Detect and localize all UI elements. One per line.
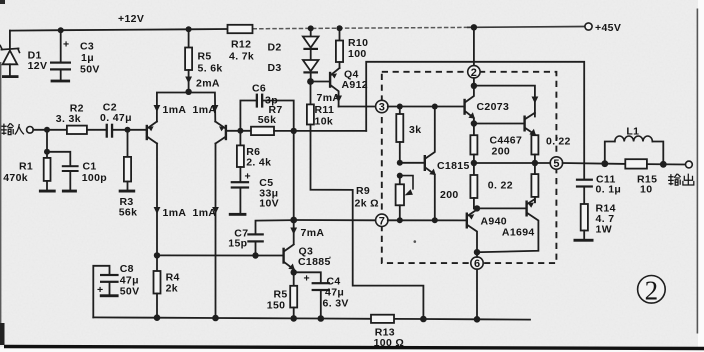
resistor R3 [119,130,138,219]
svg-text:+: + [304,273,310,285]
svg-text:15p: 15p [228,238,247,250]
svg-text:56k: 56k [258,114,277,126]
wire: +12V/+45V top rail [10,29,228,31]
wire: node3 inside module [388,106,464,108]
diode D2 [268,25,319,59]
pin 2 [468,24,480,79]
svg-text:1W: 1W [596,224,612,236]
svg-text:0. 47μ: 0. 47μ [100,112,132,124]
svg-text:1mA: 1mA [193,207,217,219]
ground [100,294,119,297]
wire: diff pair emitter tail [154,89,219,122]
node: L1 left junction [601,160,608,167]
resistor R11 [307,82,334,128]
label 7mA (Q3 collector) [290,227,324,239]
svg-text:1μ: 1μ [81,52,94,64]
ground [51,80,71,83]
ground [574,239,594,242]
svg-text:2mA: 2mA [196,78,220,90]
node: L1 right junction [660,161,667,168]
svg-text:+12V: +12V [118,13,144,25]
svg-text:4. 7k: 4. 7k [229,51,254,63]
capacitor C4 [294,272,349,318]
wire: to A1694 base [477,207,525,209]
svg-text:5. 6k: 5. 6k [198,63,223,75]
svg-text:+: + [63,39,69,51]
top-left corner mark [0,0,5,4]
svg-text:3k: 3k [409,124,421,136]
wire: node to Zobel loop corner [294,130,367,132]
resistor 3k [396,107,421,163]
svg-text:R1: R1 [19,161,33,173]
capacitor C11 [576,174,621,205]
svg-text:R9: R9 [356,185,370,197]
label R9 2k ohm [355,185,379,210]
wire: zobel loop (node feedback to C11) [366,62,584,179]
capacitor C7 [228,220,293,255]
wire: node down to node7 line [293,131,295,220]
wire: node5 to output [563,162,626,165]
wire: bottom feedback rail [93,317,371,318]
bottom black separator bar [4,345,704,350]
transistor A940 (PNP driver) [466,210,507,253]
transistor C4467 (NPN output) [490,113,536,158]
transistor Q1 (PNP left of diff pair) [146,122,157,144]
svg-text:+45V: +45V [595,22,621,34]
resistor R2 [56,103,87,135]
wire: pin2 to output collector [474,86,535,117]
wire: Q2 base to R7 [227,130,251,132]
transistor C1815 (Vbe multiplier) [424,107,470,221]
pin 5 [550,157,562,170]
resistor R4 [154,252,180,318]
transistor Q4 A912 (PNP current source) [311,68,369,107]
node: C7 bottom junction [252,252,258,258]
svg-text:10: 10 [640,184,652,196]
resistor R15 [625,159,685,195]
svg-text:1mA: 1mA [193,104,217,116]
node: Q3 emitter junction [291,269,297,275]
pin 3 [376,100,388,113]
wire: Q2 collector down [212,144,219,319]
wire: Q1 collector to Q3 base [157,254,283,256]
ground [2,75,19,78]
svg-text:470k: 470k [3,172,28,184]
svg-text:A1694: A1694 [502,227,535,239]
resistor R14 [574,203,616,242]
wire R2 to C2 [87,129,107,131]
label 输出 (output) [668,174,694,186]
capacitor C5 [229,171,279,216]
inductor L1 [605,126,664,165]
svg-text:2: 2 [645,275,659,305]
transistor A1694 (PNP output) [477,199,538,252]
node: node7 / Q3 collector junction [290,217,297,224]
svg-text:5: 5 [553,158,559,170]
wire: base tap to C1815 [400,162,424,164]
svg-text:0. 1μ: 0. 1μ [596,184,622,196]
svg-text:7mA: 7mA [301,227,325,239]
resistor R10 [336,25,368,68]
pin 7 [376,214,388,227]
node: Q1 base / R3 junction [125,127,131,133]
svg-text:2. 4k: 2. 4k [246,157,271,169]
wire C2 to Q1 base [113,129,146,131]
svg-text:A912: A912 [342,79,369,91]
svg-text:R11: R11 [315,104,335,116]
wire input to R2 [33,129,67,131]
node: R6/C6 junction [237,128,243,134]
svg-text:C2073: C2073 [477,101,510,113]
svg-text:C8: C8 [120,263,134,275]
svg-text:200: 200 [492,146,511,158]
svg-text:3: 3 [379,102,385,114]
potentiometer (bias adjust) [396,176,413,221]
svg-text:2k: 2k [166,283,178,295]
wire: node7 inside module [388,219,466,221]
output terminal [686,161,693,168]
svg-text:C1885: C1885 [298,256,331,268]
svg-text:D2: D2 [268,42,282,54]
svg-text:3p: 3p [265,95,278,107]
left page edge line [0,62,1,341]
svg-text:50V: 50V [80,64,100,76]
label 输入 (input) [1,123,24,135]
wire: node5 line [474,162,550,164]
wire: node7 line to circle 7 [294,219,376,221]
svg-text:R12: R12 [231,39,251,51]
circled figure number 2 [638,275,666,305]
svg-text:+: + [97,284,103,296]
svg-text:R5: R5 [198,51,212,63]
svg-text:D3: D3 [268,62,282,74]
node: D3/Q4 base/R11 [307,78,314,85]
capacitor C1 [47,152,107,193]
resistor R7 [251,104,294,135]
svg-text:3. 3k: 3. 3k [56,113,81,125]
svg-text:12V: 12V [28,60,48,72]
wire: pin6 down to rail [476,252,478,319]
resistor R13 [371,315,404,349]
module dashed box [382,72,557,263]
node: pin2 junction [471,83,477,89]
svg-text:100: 100 [348,48,367,60]
svg-text:0. 22: 0. 22 [488,180,513,192]
right frame line [697,9,699,334]
resistor R5 (150) [267,272,297,318]
wire: node 3 line (Q4 collector to module) [339,106,376,108]
resistor 0.22 (lower) [470,163,513,208]
svg-text:2k Ω: 2k Ω [355,198,379,210]
svg-text:100p: 100p [82,172,107,184]
svg-text:200: 200 [440,189,459,201]
node: input junction [44,127,50,133]
node: pin6 junction [474,249,480,255]
svg-text:100 Ω: 100 Ω [374,337,405,349]
svg-text:C3: C3 [80,41,94,53]
svg-text:1mA: 1mA [163,207,187,219]
node: A940 emitter / A1694 base junction [474,205,480,211]
wire: Q3 collector [293,220,295,244]
bottom-left edge blob [0,323,5,345]
svg-text:C1: C1 [83,160,97,172]
ground [62,190,77,193]
resistor 0.22 (upper) [531,135,570,163]
capacitor C2 [100,102,132,138]
resistor (lower right) [531,163,538,202]
speck artifacts [414,240,417,243]
svg-text:7: 7 [379,215,385,227]
resistor R5 [185,26,223,91]
label 7mA (Q4 collector) [317,92,343,104]
svg-text:0.′22: 0.′22 [546,136,571,148]
svg-text:10k: 10k [315,116,334,128]
svg-text:C6: C6 [252,83,266,95]
svg-text:10V: 10V [259,198,279,210]
node: rail dots [154,314,161,321]
svg-text:L1: L1 [626,126,639,138]
node: C2073 emitter [471,120,477,126]
node: pot wiper tap [397,173,403,179]
terminal +45V [585,23,592,30]
ground [229,213,247,216]
capacitor C8 [93,263,139,317]
zener diode D1 [0,31,47,78]
wire: R11 bootstrap step line [311,125,424,320]
transistor Q2 (PNP right of diff pair) [215,122,227,144]
svg-text:150: 150 [267,300,286,312]
arrow on collector wire [532,97,539,104]
resistor R12 [228,25,255,63]
svg-text:50V: 50V [120,286,140,298]
diode D3 [268,60,319,82]
ground [39,190,56,193]
capacitor C6 [240,83,293,131]
svg-text:2: 2 [471,67,477,79]
ground [119,190,136,193]
wire: to C4467 base [474,123,524,125]
pin 6 [471,257,483,270]
svg-text:C1815: C1815 [437,160,470,172]
capacitor C3 [50,27,100,82]
svg-text:56k: 56k [119,207,138,219]
input terminal [27,127,34,134]
svg-text:+: + [245,171,251,183]
svg-text:6. 3V: 6. 3V [323,298,349,310]
resistor R1 [3,130,56,193]
wire: Q1 collector down [154,144,161,256]
resistor R6 [237,131,271,181]
transistor C2073 (NPN driver) [463,86,509,124]
node: Vbe multiplier base tap [397,160,403,166]
transistor Q3 C1885 [282,245,330,273]
resistor 200 (upper) [470,124,477,164]
node: R7/C6/R11 feedback node [291,128,297,134]
svg-text:1mA: 1mA [163,104,187,116]
